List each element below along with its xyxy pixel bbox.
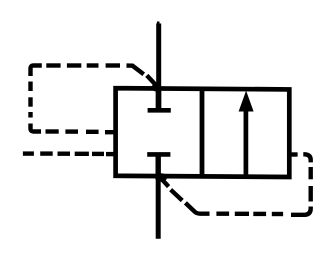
junction blob at bottom pipe xyxy=(155,173,167,181)
pilot vertical dash xyxy=(28,97,32,106)
junction blob at top pipe xyxy=(152,84,162,92)
pilot corner dash bottom-left xyxy=(31,124,42,132)
pilot bent dash into diagonal xyxy=(127,66,144,75)
pilot dash xyxy=(92,152,104,156)
pilot dash xyxy=(253,212,266,216)
pilot dash xyxy=(272,212,283,216)
pilot dash xyxy=(46,63,60,67)
top main pipe tip xyxy=(157,22,160,26)
pilot vertical dash xyxy=(309,167,313,179)
pilot dash xyxy=(65,129,78,133)
pilot corner dash top-right xyxy=(303,154,310,162)
top main pipe xyxy=(156,24,161,91)
position divider xyxy=(200,89,205,177)
pilot stub at box left lower port xyxy=(106,152,117,156)
pilot dash xyxy=(46,129,59,133)
pilot stub at box left upper port xyxy=(105,130,117,134)
pilot dash xyxy=(75,152,89,156)
pilot vertical dash xyxy=(28,112,32,118)
flow path arrow xyxy=(239,91,254,177)
pilot corner dash diagonal-to-horizontal xyxy=(185,203,209,214)
pilot dash xyxy=(106,63,120,67)
pilot dash xyxy=(40,151,53,155)
pilot dash xyxy=(67,63,81,67)
pilot dash xyxy=(87,63,99,67)
top blocked port T xyxy=(148,88,171,110)
lower-right pilot diagonal dash at pipe junction xyxy=(161,178,169,187)
pilot dash xyxy=(216,211,229,215)
pilot upper loop corner dash top-left xyxy=(31,66,42,77)
pilot diagonal dash at pipe junction xyxy=(147,75,157,86)
lower-left pilot dash xyxy=(23,151,34,155)
pilot dash xyxy=(58,151,71,155)
pilot dash xyxy=(86,130,99,134)
pilot vertical dash xyxy=(28,82,32,92)
pilot vertical dash xyxy=(309,186,313,202)
bottom blocked port T xyxy=(147,154,170,176)
valve body outer box xyxy=(116,88,290,177)
pilot diagonal dash xyxy=(171,190,183,201)
pilot stub at box right port xyxy=(288,152,298,156)
pilot corner dash bottom-right xyxy=(291,207,311,215)
bottom main pipe xyxy=(156,175,161,239)
pilot dash xyxy=(235,212,249,216)
